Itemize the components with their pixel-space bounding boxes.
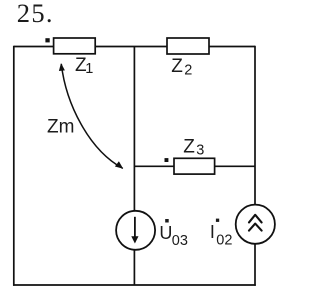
polarity dot of Z3 [165, 158, 169, 162]
wire: middle branch vertical [133, 47, 135, 286]
wire: left side of loop [13, 46, 15, 286]
wire: Z3 branch horizontal [134, 165, 255, 167]
svg-text:2: 2 [184, 62, 192, 78]
label Z1 [75, 55, 93, 77]
label I02 [210, 219, 233, 249]
current source I02 [236, 205, 275, 244]
svg-text:U: U [159, 223, 172, 243]
impedance Z3 [174, 158, 215, 174]
svg-text:03: 03 [172, 233, 188, 249]
svg-text:25.: 25. [17, 0, 54, 28]
label Z3 [183, 137, 204, 159]
wire: right side of loop [254, 46, 256, 286]
impedance Z1 [54, 38, 96, 54]
problem number 25 [17, 0, 54, 28]
svg-text:1: 1 [85, 61, 93, 77]
label U03 [159, 219, 188, 249]
svg-text:Z: Z [183, 137, 195, 158]
wire: top side of loop [14, 46, 255, 48]
impedance Z2 [167, 38, 209, 54]
label Z2 [171, 56, 192, 78]
svg-text:I: I [210, 222, 215, 242]
svg-text:3: 3 [196, 143, 204, 159]
label Zm [47, 117, 74, 138]
mutual coupling arrow Zm [59, 63, 123, 169]
polarity dot of Z1 [45, 38, 49, 42]
svg-text:Z: Z [171, 56, 183, 77]
voltage source U03 [116, 211, 155, 250]
svg-text:02: 02 [216, 232, 232, 248]
svg-text:Zm: Zm [47, 117, 74, 138]
wire: bottom side of loop [13, 284, 256, 286]
